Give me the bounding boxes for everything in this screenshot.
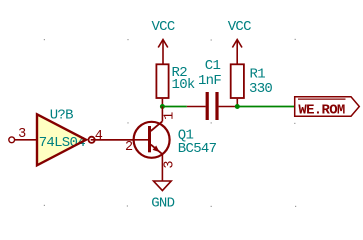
grid dots bbox=[44, 39, 296, 207]
svg-text:GND: GND bbox=[151, 195, 174, 211]
Q1 base bar bbox=[148, 126, 151, 152]
svg-text:10k: 10k bbox=[172, 77, 195, 93]
svg-text:C1: C1 bbox=[205, 58, 221, 74]
R2 bottom pin bbox=[161, 99, 163, 107]
junction node B (R1 / C1 / WE.ROM) bbox=[235, 104, 240, 109]
VCC arrow head bbox=[158, 40, 168, 48]
capacitor C1 bbox=[187, 58, 238, 120]
resistor R2 bbox=[156, 64, 195, 106]
C1 left plate bbox=[206, 92, 209, 120]
svg-text:2: 2 bbox=[125, 140, 133, 155]
svg-text:1nF: 1nF bbox=[198, 73, 221, 89]
wire: node A junction to C1 left pin bbox=[162, 106, 186, 108]
junction node A (R2 / Q1 collector / C1) bbox=[160, 104, 165, 109]
svg-text:WE.ROM: WE.ROM bbox=[298, 103, 345, 119]
svg-text:R1: R1 bbox=[250, 66, 266, 82]
inverting output bubble bbox=[89, 137, 95, 143]
gate body fill bbox=[37, 114, 86, 165]
gate body outline bbox=[37, 114, 86, 165]
Q1 emitter pin to ground bbox=[161, 154, 163, 181]
svg-text:VCC: VCC bbox=[151, 19, 174, 35]
Q1 collector pin to node A bbox=[161, 107, 163, 122]
svg-text:3: 3 bbox=[162, 161, 177, 169]
R2 body bbox=[156, 64, 168, 98]
input pin 3 wire stub bbox=[15, 139, 37, 141]
Q1 body circle bbox=[134, 122, 170, 158]
svg-text:BC547: BC547 bbox=[178, 141, 217, 157]
C1 right plate bbox=[215, 92, 218, 120]
Q1 emitter arrowhead bbox=[153, 146, 160, 153]
unconnected pin-end circle bbox=[9, 137, 15, 143]
inverter gate U?B 74LS04 bbox=[9, 107, 148, 165]
transistor Q1 bbox=[91, 107, 217, 182]
C1 left pin bbox=[187, 106, 206, 108]
power symbol VCC (left) bbox=[151, 19, 174, 64]
svg-text:1: 1 bbox=[163, 112, 178, 120]
global label WE.ROM bbox=[295, 97, 360, 119]
power symbol VCC (right) bbox=[228, 19, 251, 64]
Q1 emitter diagonal bbox=[151, 145, 163, 155]
VCC arrow stem / pin to R2 bbox=[162, 40, 164, 64]
resistor R1 bbox=[231, 64, 273, 106]
VCC arrow stem / pin to R1 bbox=[236, 40, 238, 64]
svg-text:4: 4 bbox=[95, 129, 103, 144]
R1 bottom pin bbox=[236, 99, 238, 107]
ground symbol bbox=[151, 181, 174, 211]
svg-text:U?B: U?B bbox=[50, 107, 73, 123]
label outline bbox=[295, 97, 360, 116]
ground triangle bbox=[154, 181, 172, 191]
Q1 base pin segment bbox=[91, 139, 148, 141]
output pin 4 to Q1 base bbox=[95, 139, 148, 141]
wire: node B junction to global label WE.ROM bbox=[237, 106, 294, 108]
VCC arrow head bbox=[232, 40, 242, 48]
C1 right pin bbox=[219, 106, 238, 108]
svg-text:3: 3 bbox=[18, 127, 26, 142]
svg-text:330: 330 bbox=[249, 81, 272, 97]
active-low overbar bbox=[298, 98, 346, 100]
Q1 collector diagonal bbox=[151, 121, 163, 131]
R1 body bbox=[231, 64, 244, 98]
svg-text:VCC: VCC bbox=[228, 19, 251, 35]
